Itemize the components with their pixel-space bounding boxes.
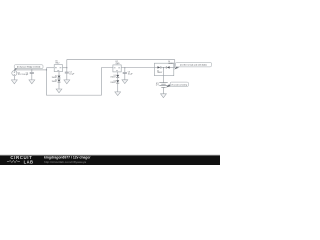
box around D3/D4 (154, 63, 173, 75)
svg-text:1N4007: 1N4007 (110, 77, 115, 79)
annotation C pointer (166, 84, 171, 87)
wire D6 to ground (117, 83, 119, 92)
svg-text:(To avoid car battery): (To avoid car battery) (171, 83, 187, 86)
ground under C3 (122, 80, 128, 84)
diode D3 (157, 66, 160, 68)
ground under V1 (11, 80, 17, 84)
diode D4 (167, 66, 170, 68)
svg-text:1N4007: 1N4007 (168, 63, 173, 65)
capacitor C1 (31, 70, 33, 72)
node C3 tap (124, 67, 125, 68)
regulator U2 (113, 65, 121, 72)
ground under C1 (29, 80, 35, 84)
diode D5 (116, 75, 119, 77)
wire D1 to D2 (58, 78, 60, 80)
wire V1 row (14, 69, 46, 71)
svg-text:LAB: LAB (24, 159, 34, 164)
svg-text:1N4007: 1N4007 (110, 82, 115, 84)
voltage source V1 (12, 71, 17, 76)
annotation box C (170, 82, 188, 86)
wire top run (67, 59, 175, 61)
svg-text:D3: D3 (157, 70, 159, 72)
wire battery drop (162, 68, 164, 83)
diode D1 (58, 76, 61, 78)
svg-text:1N4007: 1N4007 (157, 72, 162, 74)
svg-text:10 µF: 10 µF (69, 74, 75, 76)
wire D5 to D6 (117, 78, 119, 81)
battery BT1 (159, 83, 167, 88)
wire D2 to ground (58, 82, 60, 89)
svg-text:1N4007: 1N4007 (52, 81, 57, 83)
capacitor C3 (124, 68, 126, 73)
diode D2 (58, 80, 61, 82)
annotation A pointer (14, 68, 18, 70)
svg-text:http://circuitlab.com/c/8yawey: http://circuitlab.com/c/8yaweya (44, 160, 86, 164)
capacitor C2 (66, 68, 68, 72)
ground under D2 (56, 89, 62, 93)
wire U2 out to D3 (121, 67, 157, 69)
wire D3 to D4 (161, 67, 166, 69)
svg-text:1N4007: 1N4007 (52, 77, 57, 79)
regulator U1 (54, 65, 62, 72)
wire loop-junction to U1 (47, 67, 55, 69)
node U1 output (66, 67, 67, 68)
ground under C2 (64, 80, 70, 84)
svg-text:(Dc A-wave Bridge rectified): (Dc A-wave Bridge rectified) (17, 66, 41, 69)
wire V1 to ground (13, 76, 15, 80)
wire right drop (174, 60, 176, 68)
wire node up (66, 60, 68, 68)
ground under battery (161, 94, 167, 98)
svg-text:7805: 7805 (115, 63, 119, 65)
svg-text:7812: 7812 (55, 62, 59, 64)
wire bottom loop (47, 68, 113, 96)
annotation box B (176, 62, 212, 67)
svg-text:10 µF: 10 µF (128, 74, 134, 76)
diode D6 (116, 80, 119, 82)
node battery tap (163, 67, 164, 68)
svg-text:12 V: 12 V (156, 84, 159, 86)
node C1 tap (31, 69, 32, 70)
wire U1 to D1 (58, 72, 60, 76)
wire U1 out to node (63, 67, 67, 69)
footer bar (0, 155, 220, 165)
svg-text:(rectifier to lead acid with d: (rectifier to lead acid with diode) (180, 64, 207, 67)
svg-text:D4: D4 (168, 61, 170, 63)
wire U2 to D5 (117, 72, 119, 75)
node loop tap (46, 69, 47, 70)
wire D4 to drop (170, 67, 175, 69)
annotation box A (14, 65, 43, 69)
annotation B pointer (174, 67, 179, 70)
ground under D6 (115, 92, 121, 96)
svg-text:100 µF: 100 µF (22, 74, 29, 76)
